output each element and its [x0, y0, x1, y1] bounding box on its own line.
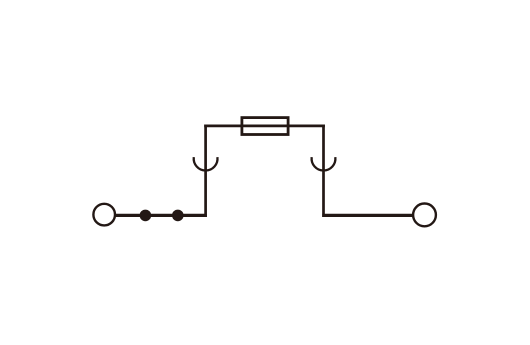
wire: right vertical to right terminal [322, 214, 413, 217]
fuse F1 [242, 118, 288, 135]
right terminal circle [413, 204, 436, 227]
junction dot 1 [140, 210, 152, 222]
wire: right vertical drop [322, 125, 325, 218]
junction dot 2 [172, 210, 184, 222]
socket contact arc (left disconnect) [194, 157, 218, 170]
socket contact arc (right disconnect) [312, 157, 336, 170]
wire: left terminal to left vertical [116, 214, 207, 217]
left terminal circle [93, 204, 115, 226]
wire: top horizontal through fuse [204, 125, 325, 128]
wire: left vertical riser [204, 125, 207, 218]
